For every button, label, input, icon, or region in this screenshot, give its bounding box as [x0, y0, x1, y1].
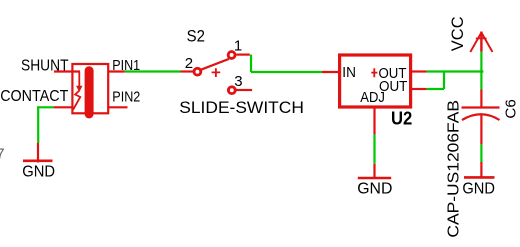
svg-text:3: 3	[234, 73, 242, 90]
svg-text:CAP-US1206FAB: CAP-US1206FAB	[446, 100, 463, 238]
switch S2 pin 3 stub	[237, 89, 253, 91]
svg-text:GND: GND	[462, 180, 495, 197]
regulator U2 body box	[340, 55, 411, 107]
regulator U2 pin stub OUT	[411, 88, 427, 90]
shunt device contact blade zigzag	[73, 91, 80, 110]
switch S2 pin 1 circle	[228, 52, 235, 59]
svg-text:1: 1	[234, 38, 242, 55]
wire OUT (horizontal)	[427, 88, 444, 90]
switch S2 pin 3 circle	[228, 87, 235, 94]
shunt device arrow shaft	[78, 72, 80, 88]
regulator U2 pin stub +OUT	[411, 70, 427, 72]
svg-text:CONTACT: CONTACT	[0, 88, 69, 105]
svg-text:7: 7	[0, 146, 5, 163]
svg-text:ADJ: ADJ	[360, 89, 385, 106]
capacitor C6 bottom plate (curved)	[462, 114, 500, 120]
wire S2 pin 1 to U2 IN (horizontal)	[251, 71, 322, 73]
wire CONTACT to GND (horizontal)	[37, 106, 53, 108]
svg-text:U2: U2	[391, 108, 412, 129]
wire CONTACT to GND (vertical)	[37, 106, 39, 143]
pin stub SHUNT	[54, 70, 80, 72]
svg-text:VCC: VCC	[449, 16, 467, 51]
svg-text:IN: IN	[342, 64, 356, 81]
pin stub PIN2	[108, 106, 128, 108]
wire ADJ to GND	[373, 134, 375, 163]
wire +OUT to VCC node	[427, 70, 484, 72]
ground symbol GND (left)	[23, 143, 53, 163]
svg-text:PIN2: PIN2	[112, 89, 140, 106]
pin stub CONTACT	[54, 106, 73, 108]
shunt device arrow head	[76, 86, 83, 92]
regulator U2 pin stub IN	[322, 71, 339, 73]
capacitor C6 bottom pin stub	[480, 115, 482, 144]
wire C6 to GND	[480, 144, 482, 162]
regulator U2 pin name +OUT (plus in red)	[371, 68, 377, 77]
switch S2 pin 2 circle	[194, 68, 201, 75]
regulator U2 pin stub ADJ	[373, 107, 375, 134]
capacitor C6 top pin stub	[480, 90, 482, 108]
svg-text:GND: GND	[357, 181, 392, 198]
svg-text:GND: GND	[22, 164, 55, 181]
svg-text:S2: S2	[187, 27, 205, 46]
svg-text:SLIDE-SWITCH: SLIDE-SWITCH	[179, 99, 304, 117]
svg-text:C6: C6	[502, 99, 519, 118]
switch S2 plus mark	[212, 68, 221, 77]
shunt device thick bar	[85, 71, 94, 114]
wire OUT up to +OUT net (vertical)	[443, 71, 445, 90]
pin stub PIN1	[108, 70, 125, 72]
svg-text:2: 2	[185, 55, 193, 72]
ground symbol GND (below U2)	[358, 164, 391, 179]
wire VCC node down to C6 (green)	[480, 52, 482, 90]
power symbol VCC arrow	[470, 32, 492, 53]
shunt device body box	[72, 64, 108, 113]
ground symbol GND (below C6)	[464, 162, 495, 179]
switch S2 pin 1 stub	[236, 53, 250, 55]
capacitor C6 top plate	[462, 106, 500, 108]
wire PIN1 to S2 pin 2	[125, 70, 181, 72]
switch S2 blade	[201, 59, 229, 70]
wire S2 pin 1 to U2 IN (vertical)	[250, 55, 252, 72]
switch S2 pin 2 stub	[181, 70, 194, 72]
